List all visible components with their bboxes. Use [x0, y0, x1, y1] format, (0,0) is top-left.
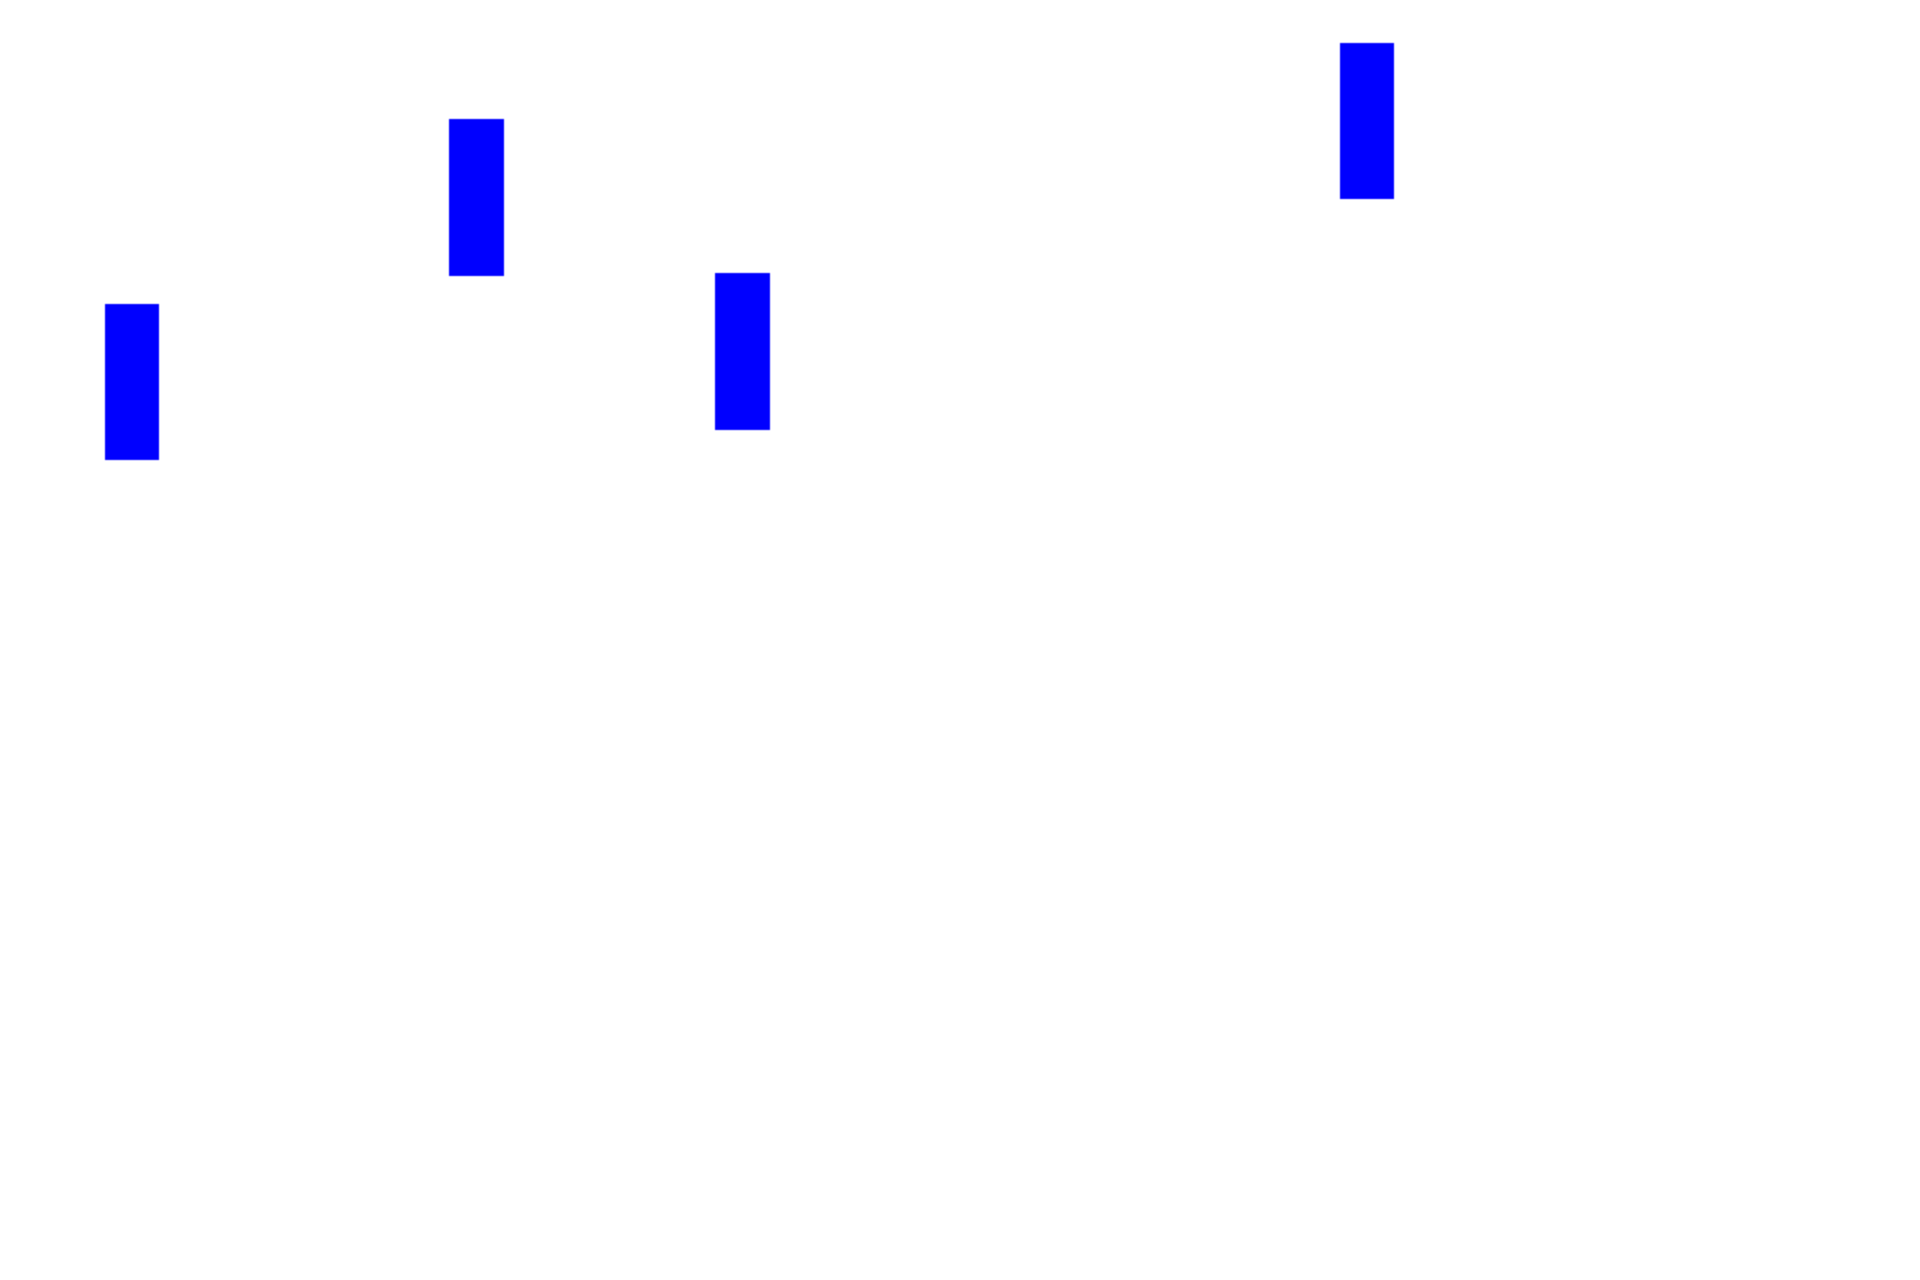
bar 4 (top right) [1340, 43, 1394, 199]
bar 3 (center) [715, 273, 770, 430]
bar 1 (left, lower) [105, 304, 159, 460]
bar 2 (upper middle-left) [449, 119, 504, 276]
